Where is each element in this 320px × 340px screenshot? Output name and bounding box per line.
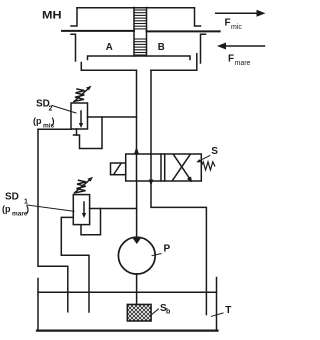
relief valve SD2 spring — [74, 86, 92, 102]
bracket under cylinder (inverted T) — [81, 63, 136, 71]
cylinder MH top line — [77, 7, 195, 9]
valve spring (right) — [201, 162, 215, 170]
Sb leader line — [151, 309, 159, 315]
pump P circle — [118, 237, 155, 274]
chamber bottom line with end hooks — [88, 56, 191, 60]
svg-text:S: S — [211, 146, 218, 157]
svg-text:F: F — [228, 54, 234, 65]
SD1 input line from pump line — [90, 208, 137, 210]
relief valve SD1 spring — [74, 177, 93, 193]
tank top line — [38, 291, 217, 293]
P leader line — [152, 254, 161, 256]
pipe pair from cylinder to valve (left) — [136, 70, 138, 154]
strainer Sb — [127, 304, 151, 321]
tank bottom — [37, 330, 218, 332]
cylinder lower-left wall — [71, 34, 76, 61]
valve left square down arrow — [150, 154, 152, 181]
cylinder lower-right wall — [201, 34, 206, 63]
tank T left wall — [37, 279, 39, 331]
relief valve SD1 body — [73, 195, 89, 225]
left vertical pipe (SD2 drain to tank) — [38, 129, 68, 311]
SD2 drain loop — [74, 117, 103, 149]
SD2 leader line — [52, 106, 76, 114]
SD1 loop — [81, 209, 101, 235]
solenoid diagonal — [114, 164, 121, 175]
pipe valve to tank (right) — [151, 181, 206, 315]
arrow F_mic — [216, 10, 266, 31]
svg-text:B: B — [158, 42, 165, 53]
valve divider lines — [160, 154, 162, 181]
SD1 drain line to tank — [61, 217, 89, 312]
pump suction pipe — [136, 274, 138, 304]
solenoid box — [111, 163, 126, 175]
valve left square up arrow — [136, 154, 138, 181]
tank right wall — [216, 278, 218, 331]
svg-text:MH: MH — [42, 10, 62, 22]
svg-text:P: P — [164, 244, 171, 255]
svg-text:mare: mare — [235, 60, 251, 67]
svg-text:b: b — [166, 309, 170, 316]
arrow F_mare — [217, 43, 265, 68]
T leader line — [211, 313, 223, 316]
svg-text:): ) — [52, 116, 55, 126]
SD1 leader line — [27, 205, 74, 211]
SD2 input line from left pipe — [38, 128, 71, 130]
piston (hatched) left edge — [133, 8, 135, 57]
directional valve body — [126, 154, 202, 181]
relief valve SD2 body — [71, 103, 88, 129]
cylinder upper-right wall — [195, 8, 201, 26]
pump outlet triangle — [132, 237, 142, 244]
valve right square X arrows — [173, 154, 190, 180]
SD2 output line to cylinder pipe — [88, 116, 137, 118]
cylinder upper-left wall — [71, 8, 77, 26]
piston hatch lines — [134, 10, 147, 55]
piston rod left segment — [62, 30, 134, 32]
svg-text:SD: SD — [5, 192, 19, 203]
svg-text:T: T — [225, 305, 231, 316]
SD2 internal arrow — [80, 111, 82, 125]
svg-text:(p: (p — [33, 116, 42, 126]
piston rod right segment — [147, 30, 220, 32]
S leader arrow — [199, 156, 210, 162]
pipe valve to pump — [136, 181, 138, 237]
svg-text:A: A — [106, 42, 113, 53]
svg-text:mic: mic — [231, 24, 242, 31]
pipe pair from cylinder to valve (right) — [150, 70, 152, 154]
svg-text:F: F — [225, 18, 231, 29]
svg-text:(p: (p — [2, 204, 11, 214]
svg-text:2: 2 — [49, 106, 53, 113]
SD1 internal arrow — [83, 202, 85, 215]
piston (hatched) right edge — [146, 8, 148, 57]
